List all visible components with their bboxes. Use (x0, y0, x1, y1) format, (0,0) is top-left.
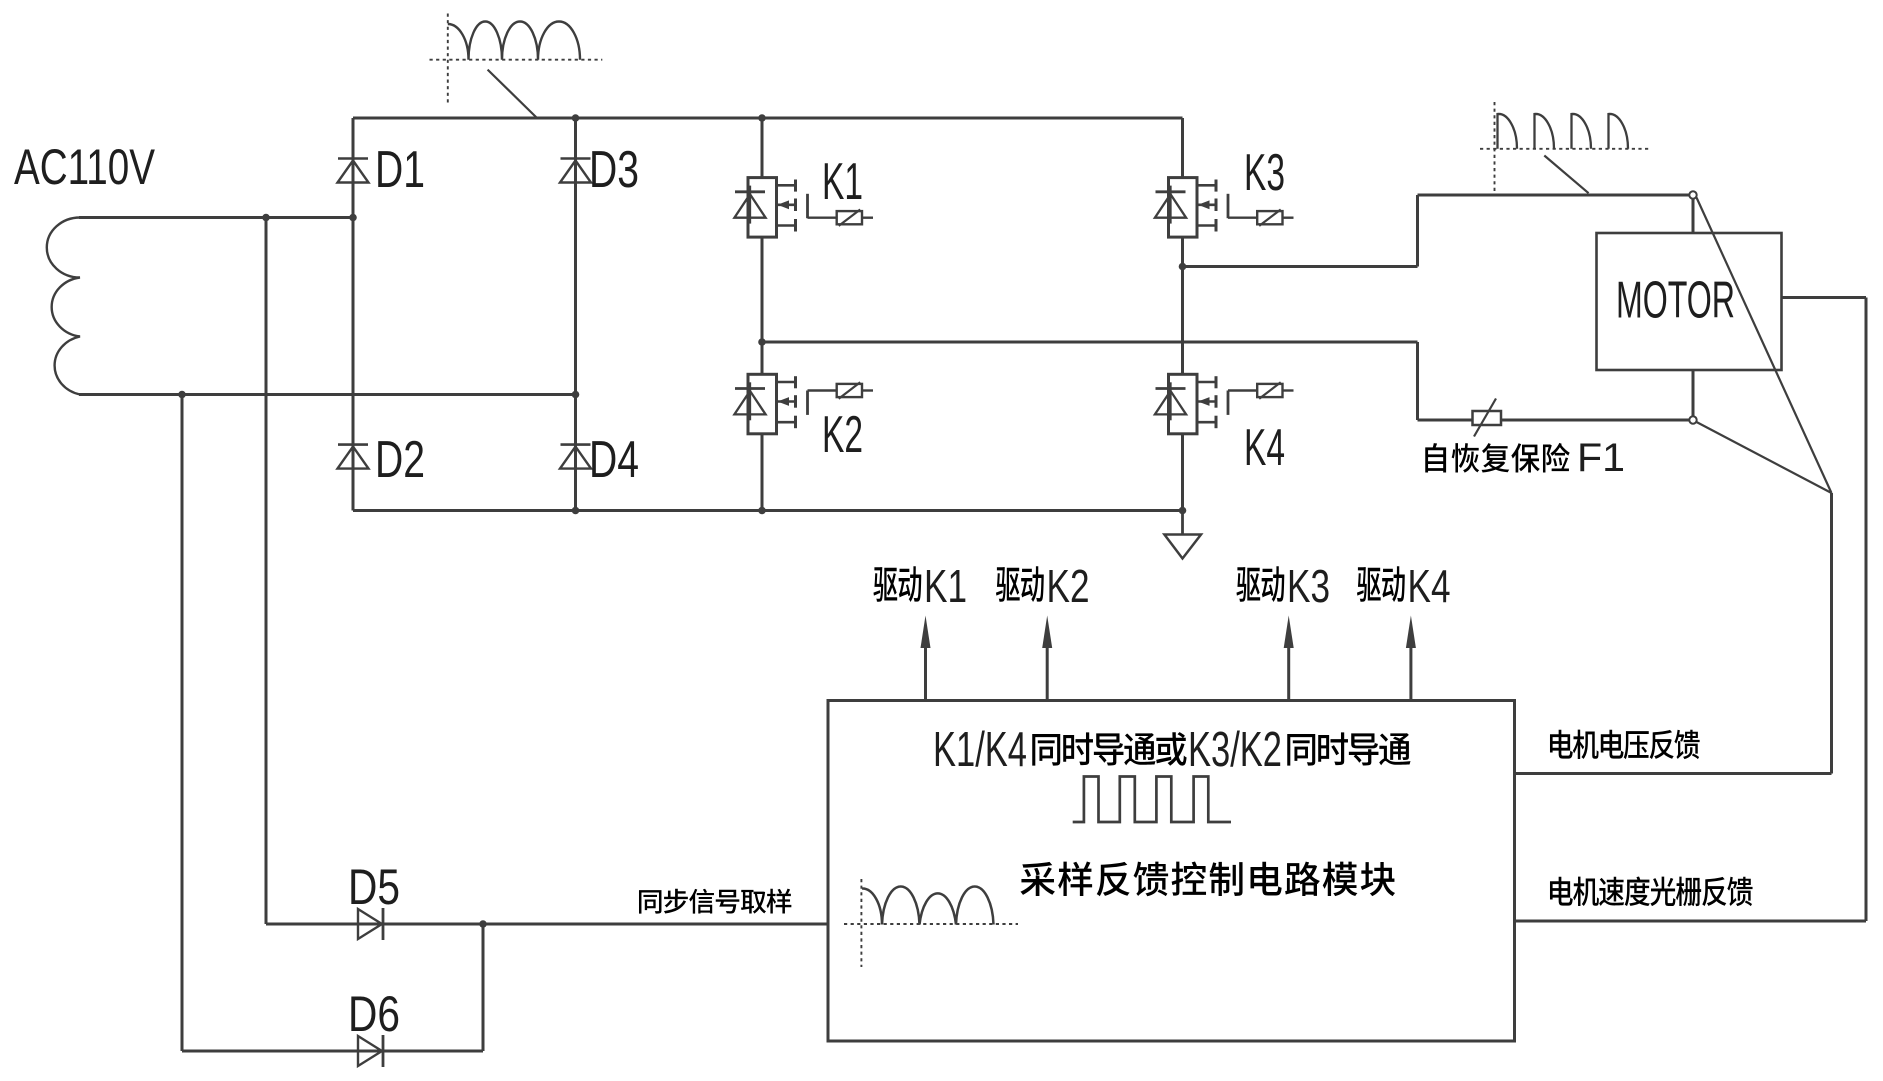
wire D6 bottom horizontal (182, 1050, 483, 1053)
node bottom rail/K4-ground (1179, 507, 1187, 515)
node K3-K4 midpoint (1179, 263, 1187, 271)
wire D6 riser to sync node (482, 924, 485, 1051)
label D3 (589, 141, 639, 199)
wire node A drop to fuse (1416, 342, 1419, 420)
label D1 (375, 141, 425, 199)
wire H-bridge right leg K3-K4 (1181, 118, 1184, 511)
wire drive arrow K4 (1406, 616, 1416, 701)
wire motor node A from K1/K2 junction (762, 341, 1418, 344)
wire D5 sync horizontal (266, 923, 828, 926)
svg-text:K4: K4 (1244, 419, 1285, 477)
wire voltage feedback to module (1515, 772, 1832, 775)
svg-text:K2: K2 (1047, 560, 1090, 612)
diode D5 (358, 908, 383, 940)
wire fuse lead right (1500, 419, 1689, 422)
svg-text:F1: F1 (1577, 436, 1625, 480)
label K3 (1244, 144, 1285, 202)
wire speed feedback to module (1515, 920, 1867, 923)
node AC-bottom/bridge (572, 391, 580, 399)
wire drive arrow K2 (1042, 616, 1052, 701)
wire motor bottom terminal stub (1692, 370, 1695, 416)
transistor K2 (MOSFET with body diode) (734, 374, 873, 434)
wire bridge right leg D3-D4 (574, 118, 577, 511)
wire drive arrow K3 (1284, 616, 1294, 701)
wire bridge top rail (353, 117, 1183, 120)
waveform annotation sync half-sines in module (844, 879, 1018, 967)
wire drive arrow K1 (921, 616, 931, 701)
label D2 (375, 431, 425, 489)
svg-text:D1: D1 (375, 141, 425, 199)
label 电机速度光栅反馈 (1550, 876, 1753, 906)
diode D3 (560, 159, 591, 183)
label K2 (822, 406, 863, 464)
label AC110V (14, 139, 155, 195)
svg-text:K1: K1 (822, 153, 863, 211)
label K1 (822, 153, 863, 211)
node top rail/right leg (572, 114, 580, 122)
node AC-bottom/D6 tap (178, 391, 186, 399)
terminal node motor bottom (1689, 416, 1696, 423)
label 驱动K4 (1357, 560, 1451, 612)
wire fuse lead left (1418, 419, 1474, 422)
diode D1 (338, 159, 369, 183)
svg-text:K3: K3 (1244, 144, 1285, 202)
label 驱动K3 (1236, 560, 1330, 612)
AC110V source winding L0 (47, 218, 80, 395)
motor box MOTOR (1597, 233, 1782, 370)
node AC-top/sync tap (262, 214, 270, 222)
label 自恢复保险F1 (1425, 436, 1625, 480)
wire voltage feedback diagonal from bottom terminal (1697, 422, 1832, 493)
svg-text:D3: D3 (589, 141, 639, 199)
label 同步信号取样 (639, 889, 791, 914)
wire speed feedback drop (1865, 298, 1868, 922)
diode D2 (338, 445, 369, 469)
wire voltage feedback drop (1830, 493, 1833, 774)
wire bridge bottom rail (353, 509, 1183, 512)
node K1-K2 midpoint (758, 338, 766, 346)
label 驱动K1 (873, 560, 967, 612)
svg-text:D6: D6 (348, 986, 400, 1042)
label D6 (348, 986, 400, 1042)
label 驱动K2 (996, 560, 1090, 612)
wire H-bridge left leg K1-K2 (761, 118, 764, 511)
wire AC bottom terminal to bridge right leg (79, 393, 576, 396)
waveform PWM square wave (1073, 777, 1231, 823)
ground (1164, 511, 1201, 559)
svg-text:K1: K1 (924, 560, 967, 612)
svg-text:AC110V: AC110V (14, 139, 155, 195)
fuse F1 (self-recovery) (1473, 399, 1502, 437)
wire motor top terminal stub (1692, 199, 1695, 233)
label MOTOR (1616, 271, 1735, 329)
svg-text:D4: D4 (589, 431, 639, 489)
wire node B riser (1416, 195, 1419, 267)
svg-text:K3/K2: K3/K2 (1188, 723, 1282, 777)
waveform annotation chopped pulses at motor (1480, 102, 1649, 194)
label 电机电压反馈 (1550, 730, 1700, 760)
wire motor node B from K3/K4 junction (1183, 265, 1418, 268)
svg-text:K1/K4: K1/K4 (933, 723, 1027, 777)
svg-text:K3: K3 (1287, 560, 1330, 612)
node sync junction (479, 920, 487, 928)
node top rail/K1 (758, 114, 766, 122)
transistor K1 (MOSFET with body diode) (734, 178, 873, 238)
terminal node motor top (1689, 191, 1696, 198)
diode D4 (560, 445, 591, 469)
label D5 (348, 859, 400, 915)
control module box (828, 701, 1515, 1042)
waveform annotation rectified sine at DC rail (430, 14, 603, 119)
svg-text:K4: K4 (1408, 560, 1451, 612)
wire vertical from AC bottom to D6 (181, 395, 184, 1052)
svg-text:D5: D5 (348, 859, 400, 915)
transistor K3 (MOSFET with body diode) (1155, 178, 1294, 238)
wire sync tap vertical from AC top (265, 218, 268, 925)
wire motor encoder lead (1782, 296, 1867, 299)
wire AC top terminal to bridge (79, 216, 353, 219)
svg-text:MOTOR: MOTOR (1616, 271, 1735, 329)
node AC-top/bridge (349, 214, 357, 222)
label D4 (589, 431, 639, 489)
svg-text:K2: K2 (822, 406, 863, 464)
wire bridge left leg D1-D2 (352, 118, 355, 511)
node bottom rail/K2 (758, 507, 766, 515)
wire motor top lead (1418, 194, 1690, 197)
svg-text:D2: D2 (375, 431, 425, 489)
wire voltage feedback diagonal from top terminal (1697, 198, 1832, 494)
label K4 (1244, 419, 1285, 477)
diode D6 (358, 1035, 383, 1067)
node bottom rail/right leg (572, 507, 580, 515)
transistor K4 (MOSFET with body diode) (1155, 374, 1294, 434)
label K1/K4同时导通或K3/K2同时导通 (933, 723, 1411, 777)
label 采样反馈控制电路模块 (1020, 861, 1395, 896)
